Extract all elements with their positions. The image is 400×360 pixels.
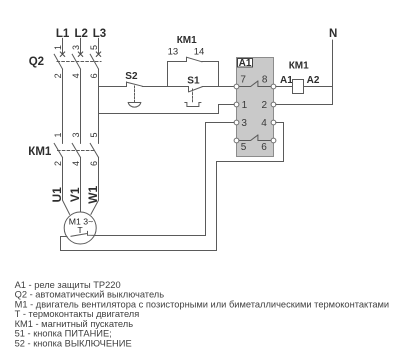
wire relay pin 4 to motor thermal contact [61,123,284,251]
aux contact KM1 13-14 [187,57,202,62]
svg-text:Q2: Q2 [29,56,44,68]
wire aux branch left [168,62,187,87]
breaker Q2 blade pole2 [72,54,80,69]
svg-text:6: 6 [261,142,267,153]
svg-text:A1: A1 [280,75,293,86]
svg-text:5: 5 [89,45,99,50]
breaker Q2 blade pole3 [90,54,98,69]
breaker Q2 terminal cross pole3 [96,52,100,56]
svg-text:7: 7 [240,75,246,86]
svg-text:2: 2 [53,161,63,166]
svg-text:5: 5 [89,132,99,137]
wire relay pin 2 to N [276,104,333,106]
wire coil to N [304,86,333,88]
wire L1 input [62,38,64,54]
contactor KM1 blade pole1 [54,143,62,157]
svg-text:4: 4 [261,118,267,129]
button S2 actuator link [134,86,136,102]
svg-text:М1 - двигатель вентилятора с п: М1 - двигатель вентилятора с позисторным… [15,299,390,309]
coil KM1 body [293,80,304,94]
svg-text:13: 13 [168,46,179,57]
svg-text:КМ1 - магнитный пускатель: КМ1 - магнитный пускатель [15,319,134,329]
svg-text:51 - кнопка ПИТАНИЕ;: 51 - кнопка ПИТАНИЕ; [15,329,112,339]
relay terminal 8 [271,84,276,89]
button S1 actuator bracket [185,103,201,107]
contactor KM1 blade pole2 [72,143,80,157]
svg-text:Т - термоконтакты двигателя: Т - термоконтакты двигателя [15,309,140,319]
svg-text:КМ1: КМ1 [289,61,309,72]
svg-text:4: 4 [71,161,81,166]
motor thermal contact blade [71,231,94,236]
svg-text:1: 1 [53,132,63,137]
breaker Q2 mechanical link [57,61,101,63]
svg-text:N: N [329,28,337,40]
svg-text:3: 3 [241,118,247,129]
relay terminal 4 [271,120,276,125]
svg-text:6: 6 [89,161,99,166]
relay terminal 6 [271,138,276,143]
contactor KM1 mechanical link [58,150,96,152]
wire W1 KM1 to motor [91,157,99,214]
svg-text:1: 1 [242,100,248,111]
wire S2 to S1 [142,86,188,88]
button S1 actuator link [192,89,194,102]
wire N vertical [332,40,334,104]
svg-text:L3: L3 [93,28,106,40]
relay contact 7-8 [239,81,271,87]
svg-text:КМ1: КМ1 [28,146,52,158]
svg-text:S2: S2 [125,71,138,82]
relay contact 5-6 [239,135,271,141]
svg-text:3: 3 [71,132,81,137]
svg-text:A1: A1 [239,58,252,69]
wire V1 KM1 to motor [80,157,82,212]
svg-text:1: 1 [53,45,63,50]
svg-text:2: 2 [53,73,63,78]
relay terminal 5 [234,138,239,143]
svg-text:14: 14 [194,46,205,57]
svg-text:КМ1: КМ1 [177,35,197,46]
svg-text:52 - кнопка ВЫКЛЮЧЕНИЕ: 52 - кнопка ВЫКЛЮЧЕНИЕ [15,338,132,348]
svg-text:6: 6 [89,73,99,78]
wire relay pin 3 to motor thermal contact [94,123,234,236]
relay terminal 7 [234,84,239,89]
breaker Q2 blade pole1 [54,54,62,69]
wire phase L1 Q2 to KM1 [62,69,64,143]
relay A1 body [237,58,274,157]
wire S2 feed from L3 [99,86,127,88]
svg-text:3: 3 [71,45,81,50]
svg-text:A2: A2 [307,75,320,86]
motor M1 circle [64,212,96,244]
svg-text:8: 8 [262,75,268,86]
relay terminal 2 [271,102,276,107]
svg-text:Т: Т [77,225,83,235]
wire S1 to relay pin 7 [202,86,234,88]
wire phase L2 Q2 to KM1 [80,69,82,143]
svg-text:4: 4 [71,73,81,78]
wire L2 input [80,38,82,54]
svg-text:Q2 - автоматический выключател: Q2 - автоматический выключатель [15,290,165,300]
contactor KM1 blade pole3 [90,143,98,157]
svg-text:L2: L2 [74,28,87,40]
wire phase L3 Q2 to KM1 [98,69,100,143]
svg-text:S1: S1 [187,76,200,87]
svg-text:2: 2 [262,100,268,111]
wire aux branch right [202,62,219,87]
svg-text:А1 - реле защиты ТР220: А1 - реле защиты ТР220 [15,280,121,290]
button S2 mushroom head [128,103,141,108]
breaker Q2 terminal cross pole1 [60,52,64,56]
wire relay pin 8 to coil [276,86,293,88]
svg-text:5: 5 [241,142,247,153]
button S2 contact [127,82,143,87]
button S1 contact [189,87,203,92]
wire U1 KM1 to motor [63,157,70,214]
svg-text:V1: V1 [68,187,82,202]
wire L3 input [98,38,100,54]
wire relay pin 1 to L3 [99,105,235,114]
svg-text:U1: U1 [50,187,64,203]
breaker Q2 terminal cross pole2 [78,52,82,56]
relay A1 designator box [238,59,253,68]
relay terminal 1 [234,102,239,107]
relay terminal 3 [234,120,239,125]
